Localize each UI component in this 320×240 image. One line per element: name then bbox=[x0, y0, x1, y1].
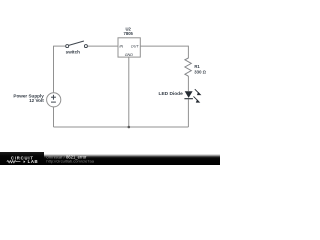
svg-text:switch: switch bbox=[66, 49, 80, 54]
svg-text:7805: 7805 bbox=[124, 31, 134, 36]
svg-text:12 Volt: 12 Volt bbox=[29, 98, 44, 103]
svg-text:LED Diode: LED Diode bbox=[159, 91, 184, 97]
svg-text:R1: R1 bbox=[194, 64, 200, 69]
svg-text:330 Ω: 330 Ω bbox=[194, 70, 206, 75]
svg-text:GND: GND bbox=[125, 53, 134, 57]
svg-text:http://circuitlab.com/c/e7aa: http://circuitlab.com/c/e7aa bbox=[46, 159, 94, 164]
svg-text:OUT: OUT bbox=[131, 45, 140, 49]
svg-text:LAB: LAB bbox=[28, 159, 39, 164]
svg-text:IN: IN bbox=[119, 45, 123, 49]
